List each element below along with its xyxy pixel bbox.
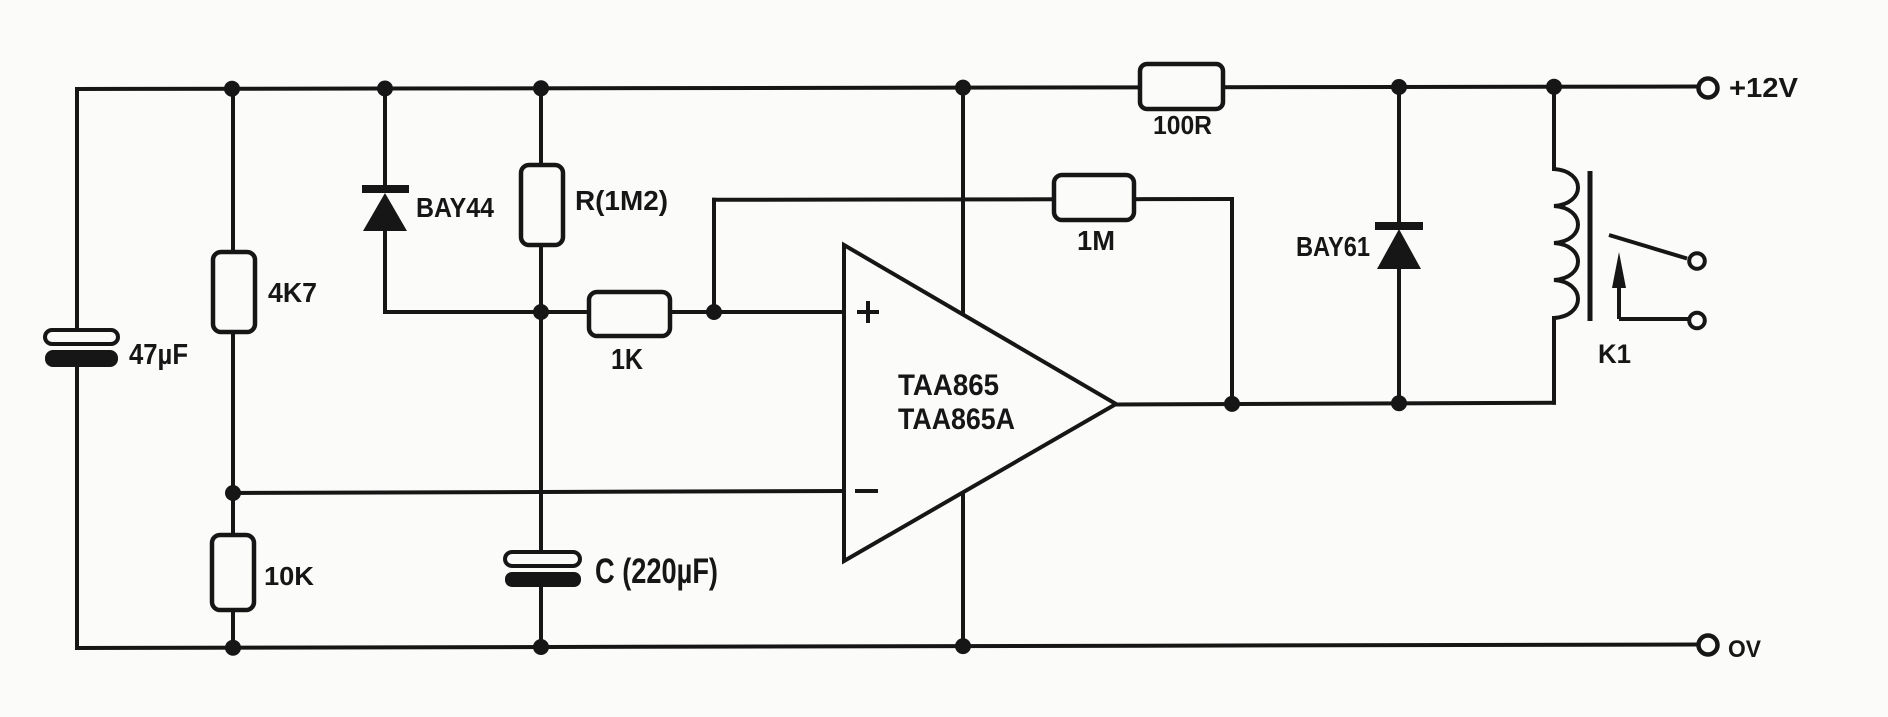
wire feedback vertical at x=1232 to output [1230, 199, 1234, 404]
op-amp U1 TAA865 triangle [844, 245, 1116, 561]
svg-text:K1: K1 [1598, 339, 1631, 369]
op-amp plus input symbol [857, 301, 879, 323]
svg-text:47µF: 47µF [129, 339, 188, 371]
junction top rail x=385 [377, 81, 393, 97]
wire op-amp output to relay [1116, 403, 1554, 405]
junction top rail x=1554 [1546, 79, 1562, 95]
svg-text:1K: 1K [611, 344, 643, 376]
resistor R(1M2) [521, 165, 563, 245]
junction bottom rail x=541 [533, 639, 549, 655]
junction top rail x=1399 [1391, 79, 1407, 95]
relay K1 upper contact [1689, 253, 1705, 269]
svg-text:BAY44: BAY44 [416, 192, 494, 223]
svg-text:1M: 1M [1077, 225, 1115, 256]
resistor 1K [589, 292, 670, 336]
wire supply x=963 upper (rail to op-amp top edge) [961, 88, 965, 315]
relay K1 core bar [1588, 171, 1593, 321]
wire branch x=541 middle (R(1M2) to C plates) [539, 243, 543, 554]
junction top rail x=541 [533, 80, 549, 96]
junction inverting node x=233 y=493 [225, 485, 241, 501]
capacitor C(220uF) top plate [505, 552, 580, 566]
relay K1 lower contact wire [1619, 317, 1688, 321]
svg-text:BAY61: BAY61 [1296, 231, 1370, 262]
junction top rail x=963 [955, 80, 971, 96]
wire inverting input (node x=233 to op-amp minus) [233, 491, 844, 493]
junction bottom rail x=963 [955, 638, 971, 654]
wire left vertical upper (to 47uF top plate) [75, 89, 79, 332]
svg-text:+12V: +12V [1729, 72, 1798, 103]
wire 1K to node x=714 [668, 310, 714, 314]
svg-text:C (220µF): C (220µF) [595, 552, 718, 591]
wire horizontal BAY44 to node at x=541 [385, 310, 541, 314]
wire feedback vertical at x=714 [712, 200, 716, 312]
op-amp minus input symbol [855, 489, 878, 493]
wire branch x=541 upper (rail to R(1M2)) [539, 88, 543, 167]
diode BAY44 cathode bar [362, 185, 409, 193]
wire BAY44 cathode drop (diode to node line) [383, 229, 387, 312]
svg-text:TAA865: TAA865 [898, 369, 999, 402]
junction output x=1399 y=404 [1391, 395, 1407, 411]
wire branch x=233 upper (rail to 4K7) [231, 88, 235, 254]
wire branch x=541 lower (C to bottom rail) [539, 585, 543, 648]
terminal 0V [1699, 636, 1718, 655]
wire node x=541 to 1K [541, 310, 591, 314]
svg-text:10K: 10K [264, 561, 314, 591]
wire left vertical lower (47uF to bottom rail) [75, 365, 79, 648]
wire branch x=233 lower (10K to bottom rail) [231, 608, 235, 648]
wire node x=714 to op-amp plus input [714, 310, 844, 314]
wire feedback horizontal right of 1M [1132, 197, 1232, 201]
wire relay coil bottom to output line [1552, 318, 1556, 403]
junction bottom rail x=233 [225, 640, 241, 656]
capacitor 47uF bottom plate [45, 350, 118, 367]
svg-text:OV: OV [1728, 636, 1761, 663]
junction output x=1232 y=404 [1224, 396, 1240, 412]
resistor 100R [1140, 64, 1223, 109]
relay K1 actuator arrow shaft [1617, 286, 1621, 319]
wire top rail +12V [77, 87, 1697, 90]
junction node x=714 y=312 [706, 304, 722, 320]
wire BAY44 anode drop (rail to diode) [383, 88, 387, 187]
diode BAY61 cathode bar [1375, 222, 1423, 230]
capacitor C(220uF) bottom plate [505, 572, 581, 587]
svg-text:TAA865A: TAA865A [898, 403, 1015, 436]
svg-text:100R: 100R [1153, 110, 1212, 140]
wire relay coil feed (rail to coil top) [1552, 88, 1556, 169]
diode BAY44 triangle [363, 193, 407, 231]
junction top rail x=233 [224, 81, 240, 97]
wire supply x=963 lower (op-amp bottom edge to bottom rail) [961, 492, 965, 647]
junction node x=541 y=312 [533, 304, 549, 320]
diode BAY61 triangle [1377, 229, 1421, 269]
resistor 4K7 [213, 252, 255, 332]
relay K1 coil [1554, 169, 1578, 318]
wire BAY61 cathode drop (rail to diode) [1397, 88, 1401, 225]
resistor 1M [1054, 175, 1134, 220]
svg-text:R(1M2): R(1M2) [575, 185, 668, 216]
relay K1 lower contact [1689, 313, 1705, 329]
terminal +12V [1699, 79, 1718, 98]
relay K1 actuator arrow head [1612, 252, 1626, 288]
svg-text:4K7: 4K7 [268, 277, 317, 308]
wire BAY61 anode drop (diode to output line) [1397, 268, 1401, 403]
capacitor 47uF top plate [45, 330, 118, 344]
wire feedback horizontal left of 1M [714, 197, 1056, 202]
resistor 10K [212, 535, 254, 610]
relay K1 switch blade [1609, 235, 1687, 259]
wire bottom rail 0V [77, 645, 1697, 649]
wire branch x=233 middle (4K7 to 10K) [231, 330, 235, 537]
